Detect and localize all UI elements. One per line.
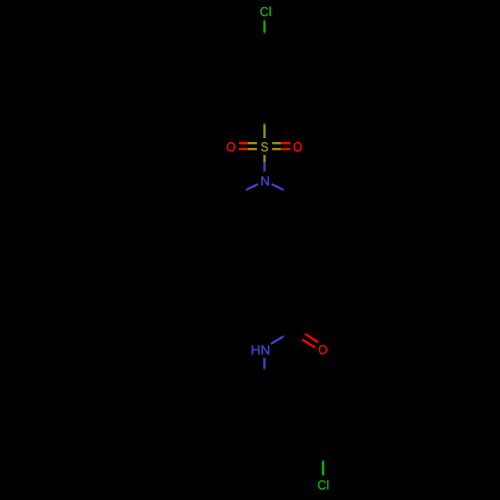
wire N-C2 half-bond (blue, down-left) (245, 184, 258, 190)
oxygen label O (right of sulfonyl) (294, 142, 302, 151)
chlorine label Cl (bottom chlorophenyl ring) (318, 480, 328, 490)
amide HN label (252, 345, 269, 354)
wire S=O right double bond, olive halves (272, 142, 281, 144)
wire N-CH2 half-bond (blue, down) (263, 358, 265, 371)
wire S=O left double bond, red halves (239, 142, 248, 144)
nitrogen label N of piperidine (261, 176, 268, 185)
wire N-C(=O) half-bond (blue, up-right) (271, 336, 285, 344)
wire S-N bond, sulfur half (olive) (263, 155, 265, 162)
oxygen label O (left of sulfonyl) (227, 142, 235, 151)
wire S=O left double bond, olive halves (248, 142, 257, 144)
wire S=O right double bond, red halves (281, 142, 290, 144)
wire S-N bond, nitrogen half (blue) (263, 162, 265, 171)
chlorine label Cl (top chlorophenyl ring) (260, 7, 270, 17)
wire N-C6 half-bond (blue, down-right) (272, 184, 285, 190)
wire Cl-C half-bond (green) (263, 21, 265, 35)
wire C-S half-bond (sulfur side, olive) (263, 123, 265, 139)
wire C=O double bond red halves (304, 333, 318, 342)
sulfur label S of sulfonyl group (261, 142, 268, 151)
wire C-Cl half-bond (green, bottom ring) (322, 459, 324, 475)
oxygen label O of carbonyl (319, 345, 327, 354)
